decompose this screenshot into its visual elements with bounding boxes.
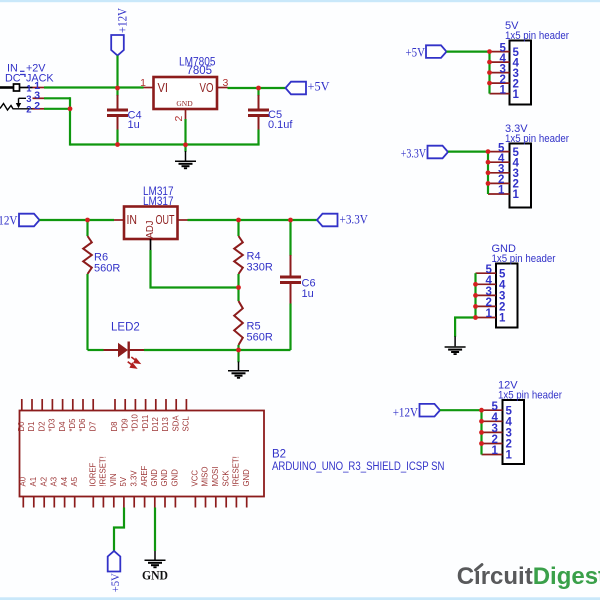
svg-text:D4: D4 [58, 421, 67, 432]
svg-text:GND: GND [242, 469, 251, 487]
svg-text:A1: A1 [29, 477, 38, 487]
svg-text:330R: 330R [247, 262, 273, 274]
svg-text:1x5 pin header: 1x5 pin header [498, 390, 562, 402]
svg-text:LED2: LED2 [111, 322, 140, 334]
svg-text:*D9: *D9 [120, 418, 129, 431]
svg-text:+12V: +12V [115, 7, 130, 33]
svg-text:2: 2 [34, 100, 40, 112]
svg-text:1: 1 [492, 445, 499, 457]
svg-text:A0: A0 [19, 476, 28, 486]
svg-text:D0: D0 [17, 421, 26, 432]
svg-text:ADJ: ADJ [145, 221, 156, 239]
svg-text:*D10: *D10 [131, 413, 140, 431]
svg-text:A3: A3 [50, 477, 59, 487]
svg-text:2: 2 [173, 116, 185, 122]
svg-text:D1: D1 [27, 422, 36, 432]
svg-text:+3.3V: +3.3V [401, 146, 427, 161]
svg-text:IOREF: IOREF [89, 462, 98, 486]
svg-text:1x5 pin header: 1x5 pin header [492, 253, 556, 265]
svg-text:1: 1 [498, 185, 505, 197]
svg-text:1: 1 [500, 84, 507, 96]
svg-text:B2: B2 [272, 449, 286, 461]
svg-text:1x5 pin header: 1x5 pin header [505, 30, 569, 42]
svg-text:MOSI: MOSI [211, 467, 220, 487]
svg-text:GND: GND [150, 469, 159, 487]
svg-text:DC: DC [5, 73, 21, 85]
svg-text:VCC: VCC [191, 470, 200, 487]
svg-text:GND: GND [176, 99, 193, 108]
svg-text:560R: 560R [94, 263, 120, 275]
svg-text:GND: GND [160, 469, 169, 487]
svg-text:ARDUINO_UNO_R3_SHIELD_ICSP SN: ARDUINO_UNO_R3_SHIELD_ICSP SN [272, 461, 445, 473]
svg-text:1: 1 [140, 77, 146, 89]
svg-text:3.3V: 3.3V [129, 470, 138, 487]
svg-text:+3.3V: +3.3V [340, 211, 369, 226]
svg-text:OUT: OUT [156, 213, 175, 227]
svg-text:1u: 1u [128, 119, 140, 131]
svg-text:AREF: AREF [140, 465, 149, 486]
svg-text:MISO: MISO [201, 467, 210, 487]
svg-text:IN: IN [127, 213, 138, 227]
svg-text:1: 1 [513, 189, 520, 201]
svg-text:D8: D8 [110, 422, 119, 432]
svg-text:1x5 pin header: 1x5 pin header [505, 133, 569, 145]
svg-text:*D5: *D5 [68, 418, 77, 432]
svg-text:VI: VI [158, 81, 169, 95]
svg-text:GND: GND [171, 469, 180, 487]
svg-text:1: 1 [499, 313, 506, 325]
svg-text:D7: D7 [88, 422, 97, 432]
svg-text:+12V: +12V [0, 212, 18, 227]
svg-text:D13: D13 [161, 417, 170, 431]
svg-text:5V: 5V [119, 476, 128, 486]
svg-text:SCK: SCK [221, 470, 230, 487]
svg-text:D2: D2 [37, 422, 46, 432]
svg-text:GND: GND [142, 567, 168, 582]
svg-text:+5V: +5V [110, 573, 122, 593]
svg-text:1: 1 [26, 83, 32, 94]
svg-text:!RESET!: !RESET! [99, 456, 108, 486]
svg-text:1u: 1u [302, 288, 314, 300]
svg-text:SCL: SCL [182, 416, 191, 432]
svg-text:!RESET!: !RESET! [232, 456, 241, 486]
svg-text:+5V: +5V [406, 44, 426, 59]
svg-text:3: 3 [26, 94, 31, 105]
svg-text:A4: A4 [60, 476, 69, 486]
svg-text:2: 2 [26, 105, 31, 116]
svg-text:A2: A2 [39, 477, 48, 487]
svg-text:*D11: *D11 [141, 415, 150, 432]
svg-text:A5: A5 [70, 476, 79, 486]
svg-text:VO: VO [200, 81, 214, 95]
svg-text:LM317: LM317 [143, 196, 174, 208]
svg-text:*D6: *D6 [78, 418, 87, 431]
svg-text:D12: D12 [151, 417, 160, 431]
svg-text:+5V: +5V [308, 79, 331, 94]
svg-text:JACK: JACK [26, 73, 54, 85]
svg-text:*D3: *D3 [48, 418, 57, 431]
svg-text:7805: 7805 [187, 65, 213, 77]
svg-text:0.1uf: 0.1uf [268, 119, 293, 131]
svg-text:560R: 560R [247, 332, 273, 344]
svg-text:1: 1 [486, 308, 493, 320]
svg-text:+12V: +12V [393, 405, 419, 420]
svg-text:1: 1 [506, 450, 513, 462]
svg-text:1: 1 [513, 89, 520, 101]
svg-text:VIN: VIN [109, 474, 118, 487]
svg-text:SDA: SDA [171, 415, 180, 432]
